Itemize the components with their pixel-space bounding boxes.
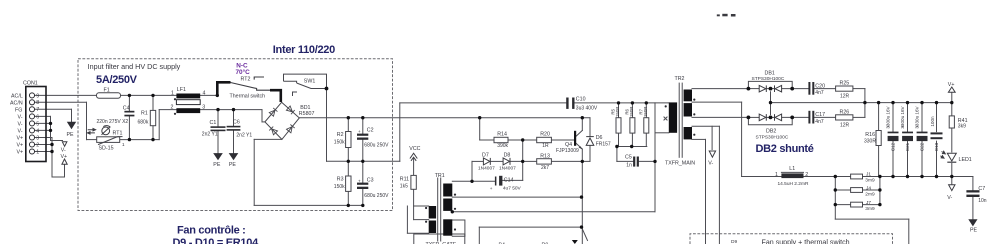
svg-text:V+: V+	[17, 150, 24, 156]
svg-text:DB1: DB1	[765, 70, 775, 76]
svg-text:C6: C6	[233, 119, 240, 125]
svg-text:LF1: LF1	[177, 87, 186, 93]
svg-text:150R: 150R	[643, 107, 648, 118]
svg-text:FJP13009: FJP13009	[556, 148, 579, 154]
svg-text:V+: V+	[61, 154, 68, 160]
svg-text:3: 3	[202, 105, 205, 111]
svg-text:3: 3	[36, 135, 39, 141]
svg-text:R20: R20	[540, 132, 550, 138]
svg-text:C1: C1	[210, 120, 217, 126]
svg-text:L1: L1	[789, 166, 795, 172]
svg-text:V+: V+	[17, 136, 24, 142]
svg-text:1: 1	[122, 142, 125, 147]
svg-text:1N4007: 1N4007	[499, 166, 516, 172]
svg-text:2: 2	[36, 142, 39, 148]
svg-text:12R: 12R	[840, 122, 850, 128]
svg-text:Inter 110/220: Inter 110/220	[273, 44, 335, 56]
svg-text:V-: V-	[18, 121, 23, 127]
svg-text:SW1: SW1	[304, 78, 316, 84]
svg-text:PE: PE	[67, 132, 75, 138]
svg-text:R5807: R5807	[299, 111, 315, 117]
svg-text:Input filter and HV DC supply: Input filter and HV DC supply	[88, 62, 181, 71]
svg-text:C10: C10	[576, 97, 586, 103]
svg-text:5A/250V: 5A/250V	[96, 74, 138, 86]
svg-text:STPS30H100C: STPS30H100C	[752, 76, 785, 82]
svg-text:R11: R11	[400, 177, 409, 183]
svg-text:BD1: BD1	[300, 105, 310, 111]
svg-text:D8: D8	[504, 153, 511, 159]
svg-text:C5: C5	[625, 155, 632, 161]
svg-text:D9 - D10 = ER104: D9 - D10 = ER104	[173, 237, 260, 244]
svg-text:R25: R25	[840, 81, 850, 87]
svg-text:3u3 400V: 3u3 400V	[576, 105, 598, 111]
svg-text:Thermal switch: Thermal switch	[230, 94, 266, 100]
svg-text:680k: 680k	[138, 120, 149, 126]
svg-text:2: 2	[171, 105, 174, 111]
svg-text:390k: 390k	[497, 143, 508, 149]
svg-text:LED1: LED1	[959, 157, 972, 163]
svg-text:3300u 16V: 3300u 16V	[900, 105, 905, 128]
svg-text:J7: J7	[866, 200, 871, 206]
svg-text:2k7: 2k7	[541, 165, 549, 171]
svg-text:1: 1	[171, 91, 174, 97]
svg-text:14.5uH 2.2mR: 14.5uH 2.2mR	[778, 181, 809, 187]
svg-text:STPS30H100C: STPS30H100C	[756, 135, 789, 141]
svg-text:1: 1	[775, 172, 778, 178]
svg-text:RT1: RT1	[113, 130, 123, 136]
svg-text:D7: D7	[482, 153, 489, 159]
svg-text:3300u 16V: 3300u 16V	[885, 105, 890, 128]
svg-text:C17: C17	[815, 112, 825, 118]
svg-text:4u7 50V: 4u7 50V	[503, 185, 522, 191]
svg-text:Fan contrôle :: Fan contrôle :	[177, 224, 246, 236]
svg-text:C7: C7	[978, 186, 985, 192]
svg-text:C12: C12	[891, 142, 896, 151]
svg-text:2n2 Y1: 2n2 Y1	[236, 133, 252, 139]
svg-text:DB2 shunté: DB2 shunté	[756, 143, 814, 155]
svg-text:SD-15: SD-15	[99, 146, 114, 152]
svg-text:C21: C21	[905, 142, 910, 151]
svg-text:150k: 150k	[334, 140, 345, 146]
svg-text:330R: 330R	[864, 139, 876, 145]
svg-text:680u 250V: 680u 250V	[364, 143, 389, 149]
svg-text:D9: D9	[731, 239, 737, 244]
svg-text:3m9: 3m9	[865, 206, 875, 212]
svg-text:C4: C4	[123, 106, 130, 112]
svg-text:4: 4	[203, 91, 206, 97]
svg-text:4n7: 4n7	[815, 119, 824, 125]
svg-text:70°C: 70°C	[236, 68, 251, 76]
svg-text:5: 5	[36, 121, 39, 127]
svg-text:150R: 150R	[615, 107, 620, 118]
svg-text:1n: 1n	[626, 163, 632, 169]
svg-text:4n7: 4n7	[815, 90, 824, 96]
svg-text:6: 6	[36, 114, 39, 120]
svg-text:D6: D6	[596, 135, 603, 141]
svg-text:TR1: TR1	[435, 173, 445, 179]
svg-text:V+: V+	[17, 143, 24, 149]
svg-text:PE: PE	[213, 162, 221, 168]
svg-text:C20: C20	[815, 83, 825, 89]
svg-text:150R: 150R	[629, 107, 634, 118]
svg-text:12R: 12R	[840, 94, 850, 100]
svg-text:AC/N: AC/N	[10, 100, 23, 106]
svg-text:680u 250V: 680u 250V	[364, 193, 389, 199]
svg-text:V-: V-	[18, 128, 23, 134]
svg-text:J4: J4	[866, 185, 871, 191]
svg-text:+: +	[358, 178, 361, 183]
svg-text:V-: V-	[61, 148, 66, 154]
svg-text:V-: V-	[947, 195, 952, 201]
svg-text:DB2: DB2	[766, 129, 776, 135]
svg-text:V+: V+	[948, 82, 955, 88]
svg-text:220n 275V X2: 220n 275V X2	[97, 119, 129, 125]
svg-text:C14: C14	[504, 177, 514, 183]
svg-text:V-: V-	[708, 161, 713, 167]
svg-text:+: +	[490, 186, 493, 191]
svg-text:3k9: 3k9	[958, 124, 966, 130]
svg-text:+: +	[358, 129, 361, 134]
svg-text:7: 7	[36, 107, 39, 113]
svg-text:R16: R16	[865, 132, 875, 138]
svg-text:10n: 10n	[978, 198, 987, 204]
svg-text:4: 4	[36, 128, 39, 134]
svg-text:Fan supply + thermal switch: Fan supply + thermal switch	[762, 239, 850, 244]
svg-text:C2: C2	[367, 127, 374, 133]
svg-text:RT2: RT2	[241, 77, 251, 83]
svg-text:Q4: Q4	[565, 142, 572, 148]
svg-text:2: 2	[805, 172, 808, 178]
svg-text:C22: C22	[920, 142, 925, 151]
svg-text:F1: F1	[104, 87, 110, 93]
svg-text:R2: R2	[337, 132, 344, 138]
svg-text:8: 8	[36, 100, 39, 106]
svg-text:R1: R1	[141, 111, 148, 117]
svg-text:FR157: FR157	[596, 142, 611, 148]
svg-text:150k: 150k	[334, 184, 345, 190]
svg-text:2m9: 2m9	[865, 192, 875, 198]
svg-text:V-: V-	[18, 114, 23, 120]
svg-text:2n2 Y1: 2n2 Y1	[202, 132, 218, 138]
svg-text:1k5: 1k5	[400, 184, 408, 190]
svg-text:FG: FG	[15, 107, 22, 113]
svg-text:TR2: TR2	[675, 76, 685, 82]
svg-text:PE: PE	[229, 162, 237, 168]
svg-text:C13: C13	[934, 142, 939, 151]
svg-text:1N4007: 1N4007	[478, 166, 495, 172]
svg-text:1: 1	[36, 149, 39, 155]
svg-text:100n: 100n	[930, 116, 935, 127]
svg-text:CON1: CON1	[23, 81, 38, 87]
svg-text:J1: J1	[866, 171, 871, 177]
svg-text:9: 9	[36, 93, 39, 99]
svg-text:R13: R13	[540, 153, 550, 159]
svg-text:AC/L: AC/L	[11, 93, 23, 99]
svg-text:1R: 1R	[542, 143, 549, 149]
svg-text:R14: R14	[497, 132, 507, 138]
svg-text:C3: C3	[367, 178, 374, 184]
svg-text:R3: R3	[337, 177, 344, 183]
svg-text:PE: PE	[970, 227, 978, 233]
svg-text:3m9: 3m9	[865, 178, 875, 184]
svg-text:VCC: VCC	[409, 146, 420, 152]
svg-text:R26: R26	[840, 109, 850, 115]
svg-text:3330u 16V: 3330u 16V	[914, 105, 919, 128]
svg-text:TXFR_MAIN: TXFR_MAIN	[665, 160, 695, 166]
